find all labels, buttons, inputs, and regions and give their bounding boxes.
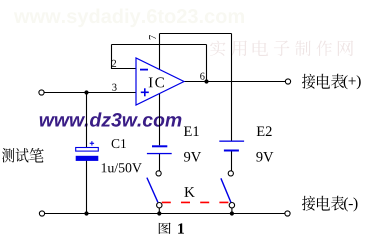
watermark www.dz3w.com: [40, 112, 182, 126]
label E1: [184, 126, 199, 136]
pin number 2: [112, 60, 116, 67]
label 接电表(-): [302, 196, 315, 211]
wire: left switch stub to rail: [158, 208, 160, 214]
label 接电表(+): [302, 74, 315, 89]
pin number 3: [112, 84, 116, 91]
battery E1 negative plate (top, thick): [152, 145, 167, 147]
node: pin 6 output junction: [204, 79, 208, 83]
switch K left blade: [147, 178, 158, 203]
wire: right switch stub to rail: [231, 208, 233, 214]
wire: top supply horizontal (pin 7 to E2): [160, 33, 232, 35]
node: right switch on rail: [230, 211, 234, 215]
label E2 9V: [256, 152, 273, 162]
capacitor C1 positive plate: [76, 148, 99, 152]
wire: top-left input horizontal (pin 3): [44, 92, 136, 94]
battery E2 negative plate (bottom, thick): [224, 150, 239, 152]
wire: E2 positive lead vertical: [231, 34, 233, 141]
op-amp inverting input minus sign: [140, 69, 148, 71]
faint top watermark text: [14, 9, 244, 28]
switch pivot: right on rail: [229, 203, 234, 208]
wire: E2 bottom lead to switch: [231, 152, 233, 171]
node: junction of probe wire and C1: [84, 90, 88, 94]
switch contact: E1 fixed: [156, 171, 161, 176]
node: C1 to bottom rail: [84, 211, 88, 215]
wire: bottom rail: [45, 213, 285, 215]
label 测试笔 (test probe): [2, 148, 14, 162]
label C1: [112, 139, 126, 148]
switch K gang dashed link: [162, 201, 229, 203]
label E2: [257, 126, 272, 136]
wire: C1 top lead: [86, 93, 88, 149]
terminal: probe bottom-left: [39, 211, 44, 216]
faint chinese watermark 实用电子制作网: [210, 41, 225, 56]
capacitor C1 negative plate: [76, 156, 99, 161]
capacitor C1 polarity plus: [90, 142, 94, 144]
wire: feedback vertical down to output node: [206, 45, 208, 82]
wire: feedback top horizontal (pin2 to output): [112, 44, 207, 46]
battery E2 positive plate (top, long): [219, 141, 244, 142]
label E1 9V: [184, 152, 201, 162]
wire: pin 2 horizontal: [112, 68, 137, 70]
label 1u/50V: [102, 163, 142, 172]
wire: op-amp output (pin 6) to meter plus: [184, 81, 285, 83]
caption 图 1: [159, 223, 171, 234]
terminal: meter minus: [285, 211, 290, 216]
label K: [184, 187, 194, 197]
op-amp non-inverting input plus sign: [141, 91, 149, 93]
wire: pin 7 vertical up: [159, 34, 161, 70]
op-amp U1 triangle: [136, 58, 184, 105]
node: left switch on rail: [157, 211, 161, 215]
terminal: meter plus: [285, 79, 290, 84]
op-amp label IC: [149, 77, 164, 87]
switch pivot: left on rail: [157, 203, 162, 208]
pin number 7 (rotated): [149, 35, 156, 39]
wire: pin 4 vertical down to E1: [159, 93, 161, 145]
switch contact: E2 fixed: [228, 171, 233, 176]
wire: C1 bottom lead: [86, 161, 88, 214]
terminal: probe top-left: [39, 90, 44, 95]
battery E1 positive plate (bottom, long): [147, 153, 172, 154]
wire: pin 2 vertical up: [111, 45, 113, 70]
pin number 6: [200, 73, 204, 80]
switch K right blade: [221, 178, 231, 202]
wire: E1 bottom lead to switch: [159, 154, 161, 171]
